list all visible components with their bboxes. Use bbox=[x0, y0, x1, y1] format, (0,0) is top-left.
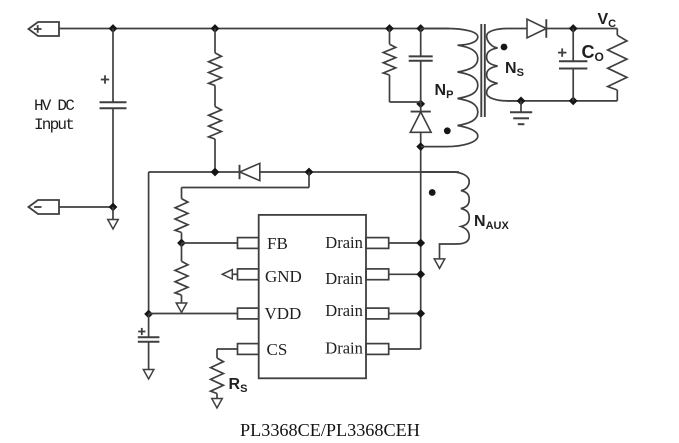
wire + to input rail bbox=[59, 28, 113, 30]
svg-text:VC: VC bbox=[598, 11, 617, 30]
svg-text:PL3368CE/PL3368CEH: PL3368CE/PL3368CEH bbox=[240, 420, 420, 440]
wire - to junction bbox=[59, 206, 113, 208]
wire input cap upper bbox=[112, 29, 114, 103]
junction primary bottom bbox=[417, 143, 424, 150]
ground NAUX return bbox=[434, 259, 445, 269]
resistor RS current sense bbox=[211, 358, 224, 394]
wire drain 3 to bus bbox=[389, 313, 421, 315]
wire drain 1 to bus bbox=[389, 242, 421, 244]
wire load bottom bbox=[616, 90, 618, 101]
resistor R5 snubber bbox=[383, 44, 395, 75]
pins left FB GND VDD CS bbox=[238, 238, 259, 355]
wire FB upper bbox=[181, 188, 183, 199]
svg-text:Drain: Drain bbox=[325, 301, 363, 320]
svg-text:NS: NS bbox=[505, 60, 524, 79]
wire load top bbox=[616, 29, 618, 36]
wire divider upper bbox=[214, 29, 216, 53]
wire FB lower bbox=[181, 243, 183, 261]
resistor R3 feedback upper bbox=[175, 199, 188, 233]
pin label GND bbox=[265, 267, 302, 286]
ground input return bbox=[108, 207, 119, 229]
svg-text:NP: NP bbox=[435, 82, 454, 101]
junction snubber R top bbox=[386, 25, 393, 32]
inductor NP primary winding bbox=[421, 29, 478, 147]
wire FB top horizontal bbox=[182, 187, 310, 189]
junction FB tap bbox=[305, 168, 312, 175]
wire CS pin to Rs bbox=[217, 349, 238, 358]
op-amp U1 PL3368 body bbox=[259, 215, 366, 378]
junction drain 2 bbox=[417, 271, 424, 278]
ground GND pin arrow bbox=[222, 270, 237, 279]
pin label VDD bbox=[265, 304, 302, 323]
text caption PL3368CE/PL3368CEH bbox=[240, 420, 420, 440]
wire output cap upper bbox=[572, 29, 574, 62]
ground VDD cap bbox=[143, 342, 154, 379]
pins right Drain x4 bbox=[366, 238, 389, 355]
capacitor C2 VDD bbox=[138, 328, 160, 342]
pin label Drain 1 bbox=[325, 233, 363, 252]
svg-text:Drain: Drain bbox=[325, 269, 363, 288]
node primary phase dot bbox=[444, 127, 451, 134]
junction input return bbox=[109, 203, 116, 210]
inductor NS secondary winding bbox=[487, 29, 527, 101]
junction snubber C top / primary top bbox=[417, 25, 424, 32]
svg-text:Input: Input bbox=[34, 116, 73, 134]
ground feedback divider bbox=[176, 295, 187, 312]
junction output cap top bbox=[570, 25, 577, 32]
wire drain bus bbox=[420, 147, 422, 349]
wire snubber R bottom bbox=[390, 75, 421, 102]
label VC bbox=[598, 11, 617, 30]
wire to FB node bbox=[181, 233, 183, 244]
svg-text:CO: CO bbox=[582, 42, 604, 64]
connector J2 - (HV DC input negative) bbox=[29, 200, 60, 214]
wire snubber R top bbox=[389, 29, 391, 45]
label NAUX bbox=[474, 213, 509, 232]
wire rail to VDD node bbox=[148, 172, 150, 314]
text HV DC Input bbox=[34, 97, 74, 134]
junction divider bottom bbox=[211, 168, 218, 175]
wire VDD node to pin bbox=[149, 313, 238, 315]
ground secondary earth bbox=[510, 101, 532, 124]
wire drain 4 to bus bbox=[389, 348, 421, 350]
resistor R2 startup lower bbox=[209, 107, 222, 140]
svg-text:Drain: Drain bbox=[325, 339, 363, 358]
wire FB node to pin bbox=[182, 242, 238, 244]
pin label CS bbox=[267, 340, 288, 359]
label CO bbox=[582, 42, 604, 64]
resistor R1 startup upper bbox=[209, 53, 222, 86]
svg-text:CS: CS bbox=[267, 340, 288, 359]
inductor NAUX auxiliary winding bbox=[421, 172, 470, 259]
node NAUX phase dot bbox=[429, 189, 436, 196]
wire snubber cap lower bbox=[420, 61, 422, 104]
label NS bbox=[505, 60, 524, 79]
capacitor C3 snubber bbox=[409, 56, 433, 60]
wire FB tap vertical bbox=[308, 172, 310, 188]
junction drain 3 bbox=[417, 310, 424, 317]
wire divider lower bbox=[214, 139, 216, 172]
junction secondary ground bbox=[517, 97, 524, 104]
junction VDD node bbox=[145, 310, 152, 317]
junction divider top bbox=[211, 25, 218, 32]
wire top rail bbox=[113, 28, 449, 30]
wire output bottom rail bbox=[507, 100, 617, 102]
wire drain 2 to bus bbox=[389, 273, 421, 275]
junction drain 1 bbox=[417, 239, 424, 246]
wire VDD rail left segment bbox=[149, 171, 240, 173]
svg-text:NAUX: NAUX bbox=[474, 213, 509, 232]
diode D2 VDD rectifier bbox=[240, 163, 260, 180]
node secondary phase dot bbox=[501, 44, 508, 51]
diode D3 output rectifier bbox=[527, 19, 617, 38]
svg-text:VDD: VDD bbox=[265, 304, 302, 323]
diode D1 clamp bbox=[410, 104, 431, 147]
junction input cap top bbox=[109, 25, 116, 32]
wire input cap lower bbox=[112, 108, 114, 207]
junction snubber bottom bbox=[417, 100, 424, 107]
label RS bbox=[229, 376, 248, 395]
ground RS bbox=[212, 394, 223, 409]
resistor R6 load bbox=[608, 35, 627, 90]
capacitor C4 output CO bbox=[558, 48, 587, 68]
wire divider middle bbox=[214, 85, 216, 106]
label NP bbox=[435, 82, 454, 101]
wire VDD rail right segment bbox=[260, 171, 459, 173]
transformer core bbox=[481, 24, 485, 117]
svg-text:Drain: Drain bbox=[325, 233, 363, 252]
svg-text:RS: RS bbox=[229, 376, 248, 395]
junction output cap bottom bbox=[570, 97, 577, 104]
pin label Drain 3 bbox=[325, 301, 363, 320]
svg-text:HV DC: HV DC bbox=[34, 97, 74, 115]
pin label FB bbox=[267, 234, 288, 253]
capacitor C1 input bulk bbox=[100, 75, 127, 108]
junction FB node bbox=[178, 239, 185, 246]
pin label Drain 4 bbox=[325, 339, 363, 358]
wire snubber cap upper bbox=[420, 29, 422, 57]
resistor R4 feedback lower bbox=[175, 261, 188, 295]
svg-text:FB: FB bbox=[267, 234, 288, 253]
wire output cap lower bbox=[572, 69, 574, 101]
wire VDD cap upper bbox=[148, 314, 150, 337]
connector J1 + (HV DC input positive) bbox=[29, 22, 60, 36]
pin label Drain 2 bbox=[325, 269, 363, 288]
svg-text:GND: GND bbox=[265, 267, 302, 286]
